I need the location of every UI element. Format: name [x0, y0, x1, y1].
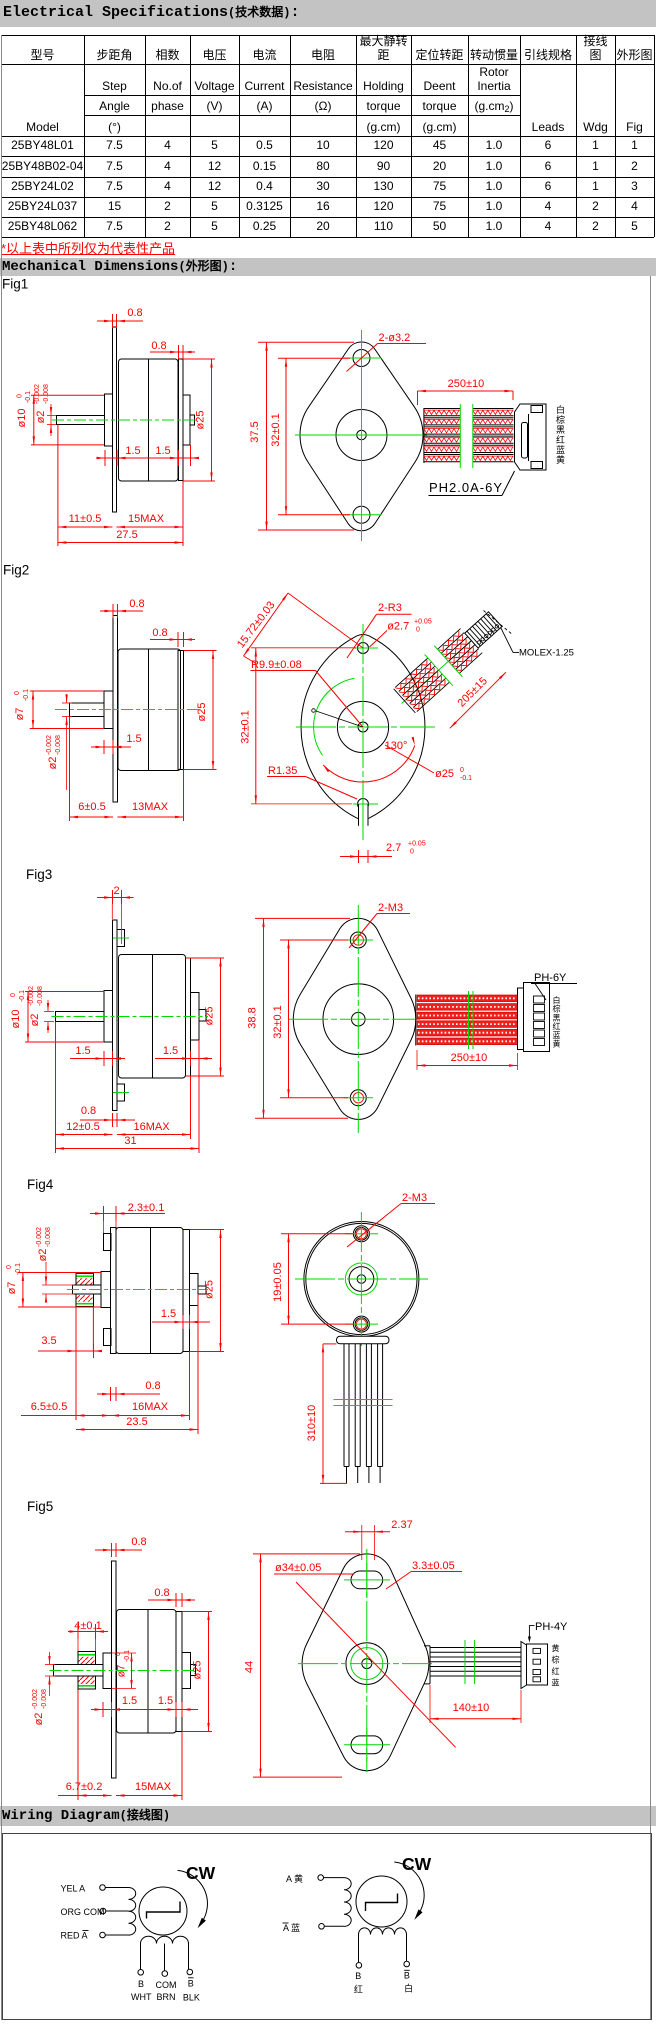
svg-text:0.8: 0.8: [127, 307, 142, 319]
svg-text:-0.002: -0.002: [28, 986, 35, 1006]
svg-text:0.8: 0.8: [145, 1380, 160, 1392]
svg-text:红: 红: [553, 1021, 561, 1031]
svg-text:ø2: ø2: [29, 1014, 41, 1027]
svg-text:2.37: 2.37: [391, 1519, 412, 1531]
svg-text:250±10: 250±10: [451, 1052, 488, 1064]
svg-text:棕: 棕: [552, 1655, 560, 1665]
svg-text:蓝: 蓝: [556, 444, 565, 455]
svg-text:-0.1: -0.1: [19, 990, 26, 1002]
svg-text:白: 白: [556, 404, 565, 415]
svg-text:3.3±0.05: 3.3±0.05: [412, 1560, 455, 1572]
svg-text:红: 红: [556, 434, 565, 445]
svg-text:15MAX: 15MAX: [128, 513, 165, 525]
svg-text:0.8: 0.8: [151, 340, 166, 352]
svg-text:红: 红: [354, 1984, 363, 1995]
svg-text:-0.002: -0.002: [46, 735, 53, 755]
svg-text:1.5: 1.5: [126, 733, 141, 745]
svg-text:ø25: ø25: [204, 1280, 216, 1299]
svg-text:R1.35: R1.35: [268, 765, 297, 777]
svg-text:0.8: 0.8: [152, 627, 167, 639]
svg-text:-0.002: -0.002: [34, 384, 41, 404]
svg-text:ø2: ø2: [37, 1249, 49, 1262]
svg-text:B: B: [188, 1979, 194, 1989]
svg-text:ø34±0.05: ø34±0.05: [275, 1562, 321, 1574]
svg-text:0.8: 0.8: [154, 1587, 169, 1599]
svg-text:1.5: 1.5: [122, 1695, 137, 1707]
svg-text:0: 0: [416, 627, 420, 634]
svg-text:13MAX: 13MAX: [132, 801, 169, 813]
svg-text:1.5: 1.5: [161, 1308, 176, 1320]
svg-text:黄: 黄: [552, 1643, 560, 1653]
svg-text:Fig5: Fig5: [27, 1499, 53, 1514]
svg-text:2.7: 2.7: [386, 842, 401, 854]
svg-text:0.8: 0.8: [81, 1105, 96, 1117]
svg-text:MOLEX-1.25: MOLEX-1.25: [519, 648, 574, 659]
svg-text:3.5: 3.5: [41, 1335, 56, 1347]
svg-text:Fig2: Fig2: [3, 563, 29, 578]
svg-text:黑: 黑: [556, 425, 565, 435]
svg-text:YEL A: YEL A: [61, 1884, 86, 1894]
svg-text:2-ø3.2: 2-ø3.2: [379, 332, 411, 344]
svg-text:0.8: 0.8: [131, 1536, 146, 1548]
svg-text:0: 0: [460, 767, 464, 774]
svg-text:-0.008: -0.008: [43, 384, 50, 404]
svg-text:12±0.5: 12±0.5: [66, 1121, 100, 1133]
svg-text:+0.05: +0.05: [408, 841, 426, 848]
svg-text:1.5: 1.5: [155, 445, 170, 457]
svg-text:2: 2: [113, 885, 119, 897]
svg-text:B: B: [355, 1971, 361, 1981]
svg-text:Fig1: Fig1: [2, 277, 28, 292]
svg-text:-0.1: -0.1: [124, 1650, 131, 1662]
svg-text:1.5: 1.5: [158, 1695, 173, 1707]
svg-text:6.7±0.2: 6.7±0.2: [66, 1781, 103, 1793]
svg-text:BRN: BRN: [156, 1992, 175, 2002]
svg-text:32±0.1: 32±0.1: [270, 413, 282, 447]
svg-text:蓝: 蓝: [552, 1678, 560, 1688]
svg-text:ø25: ø25: [192, 1661, 204, 1680]
svg-text:-0.008: -0.008: [41, 1689, 48, 1709]
svg-text:黑: 黑: [553, 1013, 561, 1022]
svg-text:19±0.05: 19±0.05: [272, 1262, 284, 1302]
svg-text:ø25: ø25: [204, 1007, 216, 1026]
svg-text:黄: 黄: [553, 1039, 561, 1049]
svg-text:ø7: ø7: [116, 1665, 128, 1678]
svg-text:2-R3: 2-R3: [378, 602, 402, 614]
svg-text:COM: COM: [156, 1980, 177, 1990]
svg-text:Fig3: Fig3: [26, 867, 52, 882]
svg-text:6±0.5: 6±0.5: [78, 801, 105, 813]
svg-text:0: 0: [17, 394, 24, 398]
svg-text:6.5±0.5: 6.5±0.5: [31, 1401, 68, 1413]
svg-text:310±10: 310±10: [306, 1405, 318, 1442]
svg-text:ORG COM: ORG COM: [61, 1907, 105, 1917]
svg-text:ø25: ø25: [195, 411, 207, 430]
svg-text:ø7: ø7: [6, 1282, 18, 1295]
svg-text:ø10: ø10: [10, 1010, 22, 1029]
svg-text:0: 0: [14, 691, 21, 695]
svg-text:15MAX: 15MAX: [135, 1781, 172, 1793]
svg-text:23.5: 23.5: [126, 1416, 147, 1428]
svg-text:16MAX: 16MAX: [132, 1401, 169, 1413]
svg-text:250±10: 250±10: [448, 378, 485, 390]
svg-text:蓝: 蓝: [553, 1030, 561, 1040]
svg-text:ø7: ø7: [14, 708, 26, 721]
svg-text:11±0.5: 11±0.5: [69, 513, 102, 525]
svg-text:0: 0: [6, 1265, 13, 1269]
svg-text:0.8: 0.8: [129, 598, 144, 610]
svg-text:A 黄: A 黄: [286, 1873, 303, 1884]
svg-text:白: 白: [553, 995, 561, 1005]
svg-text:15.72±0.03: 15.72±0.03: [235, 599, 278, 650]
svg-text:CW: CW: [402, 1854, 432, 1874]
svg-text:黄: 黄: [556, 454, 565, 465]
svg-text:B: B: [138, 1979, 144, 1989]
svg-text:PH-4Y: PH-4Y: [535, 1621, 568, 1633]
svg-text:BLK: BLK: [183, 1993, 200, 2003]
svg-text:ø2.7: ø2.7: [387, 621, 409, 633]
svg-text:38.8: 38.8: [247, 1007, 259, 1028]
svg-text:白: 白: [404, 1983, 413, 1994]
svg-text:0: 0: [410, 849, 414, 856]
svg-text:ø10: ø10: [16, 409, 28, 428]
svg-text:ø25: ø25: [196, 703, 208, 722]
svg-text:31: 31: [124, 1135, 136, 1147]
svg-text:RED A: RED A: [61, 1931, 88, 1941]
svg-text:-0.008: -0.008: [55, 735, 62, 755]
svg-text:-0.008: -0.008: [45, 1227, 52, 1247]
svg-text:PH-6Y: PH-6Y: [534, 972, 567, 984]
svg-text:B: B: [404, 1971, 410, 1981]
svg-text:0: 0: [115, 1652, 122, 1656]
svg-text:-0.1: -0.1: [25, 391, 32, 403]
svg-text:ø2: ø2: [47, 757, 59, 770]
svg-text:205±15: 205±15: [456, 675, 490, 709]
svg-text:+0.05: +0.05: [414, 619, 432, 626]
svg-text:27.5: 27.5: [116, 529, 137, 541]
svg-text:130°: 130°: [385, 740, 408, 752]
svg-text:44: 44: [244, 1661, 256, 1673]
svg-text:PH2.0A-6Y: PH2.0A-6Y: [429, 480, 503, 495]
svg-text:2-M3: 2-M3: [402, 1192, 427, 1204]
svg-text:ø2: ø2: [35, 411, 47, 424]
svg-text:-0.1: -0.1: [15, 1263, 22, 1275]
svg-text:2.3±0.1: 2.3±0.1: [128, 1202, 165, 1214]
svg-text:WHT: WHT: [131, 1992, 152, 2002]
svg-text:37.5: 37.5: [249, 421, 261, 442]
svg-text:-0.1: -0.1: [460, 775, 472, 782]
svg-text:CW: CW: [186, 1863, 216, 1883]
svg-text:-0.002: -0.002: [32, 1689, 39, 1709]
svg-text:A 蓝: A 蓝: [283, 1922, 300, 1933]
svg-text:ø2: ø2: [33, 1713, 45, 1726]
svg-text:1.5: 1.5: [163, 1045, 178, 1057]
svg-text:32±0.1: 32±0.1: [240, 710, 252, 744]
svg-text:1.5: 1.5: [75, 1045, 90, 1057]
svg-text:Fig4: Fig4: [27, 1177, 54, 1192]
svg-text:0: 0: [10, 993, 17, 997]
svg-text:32±0.1: 32±0.1: [272, 1005, 284, 1039]
svg-text:-0.008: -0.008: [37, 986, 44, 1006]
svg-text:红: 红: [552, 1666, 560, 1676]
svg-text:1.5: 1.5: [125, 445, 140, 457]
svg-text:2-M3: 2-M3: [378, 902, 403, 914]
svg-text:-0.002: -0.002: [36, 1227, 43, 1247]
svg-text:16MAX: 16MAX: [133, 1121, 170, 1133]
svg-text:R9.9±0.08: R9.9±0.08: [251, 659, 302, 671]
svg-text:棕: 棕: [553, 1004, 561, 1014]
svg-text:ø25: ø25: [435, 768, 454, 780]
svg-text:-0.1: -0.1: [23, 689, 30, 701]
svg-text:棕: 棕: [556, 414, 565, 425]
svg-text:140±10: 140±10: [453, 1702, 490, 1714]
